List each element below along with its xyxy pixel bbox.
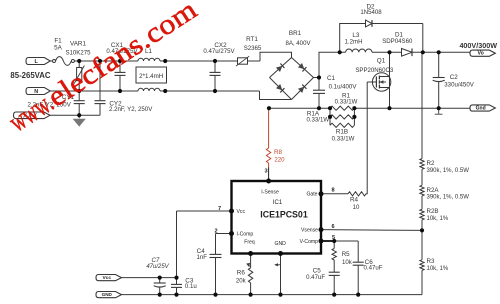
svg-text:S10K275: S10K275: [65, 49, 91, 56]
svg-text:S2365: S2365: [244, 45, 262, 52]
svg-text:10k, 1%: 10k, 1%: [427, 266, 449, 272]
svg-text:0.47uF: 0.47uF: [364, 264, 383, 271]
svg-text:8A, 400V: 8A, 400V: [285, 40, 311, 47]
svg-text:1nF: 1nF: [197, 254, 208, 261]
svg-text:0.1u: 0.1u: [185, 283, 197, 290]
svg-text:10: 10: [353, 204, 360, 211]
svg-text:0.47uF: 0.47uF: [306, 274, 325, 281]
svg-text:0.33/1W: 0.33/1W: [332, 136, 355, 143]
svg-text:R2B: R2B: [427, 208, 439, 215]
svg-text:0.33/1W: 0.33/1W: [306, 116, 329, 123]
svg-text:R8: R8: [274, 149, 283, 156]
svg-text:Vo: Vo: [478, 51, 484, 57]
svg-text:R6: R6: [237, 269, 246, 276]
svg-text:IC1: IC1: [273, 200, 283, 206]
svg-text:2: 2: [214, 229, 217, 235]
svg-text:VAR1: VAR1: [70, 41, 86, 48]
svg-text:0.33/1W: 0.33/1W: [335, 99, 358, 106]
svg-text:390k, 1%, 0.5W: 390k, 1%, 0.5W: [427, 168, 470, 174]
svg-text:2.2nF, Y2, 250V: 2.2nF, Y2, 250V: [109, 106, 153, 113]
svg-text:Q1: Q1: [377, 57, 386, 64]
svg-text:10k, 1%: 10k, 1%: [427, 216, 449, 222]
svg-text:8: 8: [331, 188, 334, 194]
svg-text:GND: GND: [275, 241, 287, 247]
svg-text:ICE1PCS01: ICE1PCS01: [260, 209, 308, 219]
svg-text:1.2mH: 1.2mH: [345, 38, 363, 45]
svg-text:6: 6: [331, 224, 334, 230]
svg-text:Vcc: Vcc: [237, 209, 246, 215]
svg-text:SDP04S60: SDP04S60: [382, 38, 413, 45]
svg-text:R3: R3: [427, 258, 435, 265]
svg-text:0.47u/275V: 0.47u/275V: [203, 48, 235, 55]
svg-text:3: 3: [264, 169, 267, 175]
svg-text:Gnd: Gnd: [476, 106, 486, 112]
svg-text:C7: C7: [151, 257, 159, 264]
svg-text:5A: 5A: [54, 44, 63, 51]
svg-text:I-Comp: I-Comp: [237, 232, 254, 238]
svg-text:Gate: Gate: [306, 192, 317, 198]
svg-text:400V/300W: 400V/300W: [459, 41, 497, 50]
svg-text:R4: R4: [350, 196, 359, 203]
svg-text:2*1.4mH: 2*1.4mH: [139, 73, 163, 80]
svg-text:330u/450V: 330u/450V: [444, 82, 474, 89]
svg-text:10k: 10k: [342, 259, 353, 266]
svg-text:R2: R2: [427, 160, 435, 167]
svg-text:R2A: R2A: [427, 187, 440, 194]
svg-text:85-265VAC: 85-265VAC: [10, 71, 51, 80]
svg-text:220: 220: [274, 156, 285, 163]
svg-text:V-Comp: V-Comp: [300, 239, 319, 245]
svg-text:RT1: RT1: [246, 36, 258, 43]
svg-text:R1B: R1B: [336, 129, 348, 136]
svg-text:C1: C1: [327, 75, 336, 82]
svg-text:Freq: Freq: [244, 240, 255, 246]
svg-text:7: 7: [218, 206, 221, 212]
svg-text:R5: R5: [342, 251, 350, 258]
svg-text:5: 5: [332, 235, 335, 241]
svg-text:Vcc: Vcc: [102, 275, 111, 281]
svg-text:390k, 1%, 0.5W: 390k, 1%, 0.5W: [427, 194, 470, 200]
svg-text:47u/25V: 47u/25V: [146, 264, 169, 270]
svg-text:BR1: BR1: [289, 30, 302, 37]
svg-text:Vsense: Vsense: [301, 228, 318, 234]
svg-text:0.1u/400V: 0.1u/400V: [329, 84, 358, 91]
svg-text:C2: C2: [450, 74, 459, 81]
svg-text:20k: 20k: [236, 278, 247, 285]
svg-text:SPP20N60C3: SPP20N60C3: [355, 67, 394, 74]
svg-text:GND: GND: [102, 292, 113, 297]
svg-text:I-Sense: I-Sense: [261, 189, 279, 195]
svg-text:1N5408: 1N5408: [360, 9, 382, 16]
